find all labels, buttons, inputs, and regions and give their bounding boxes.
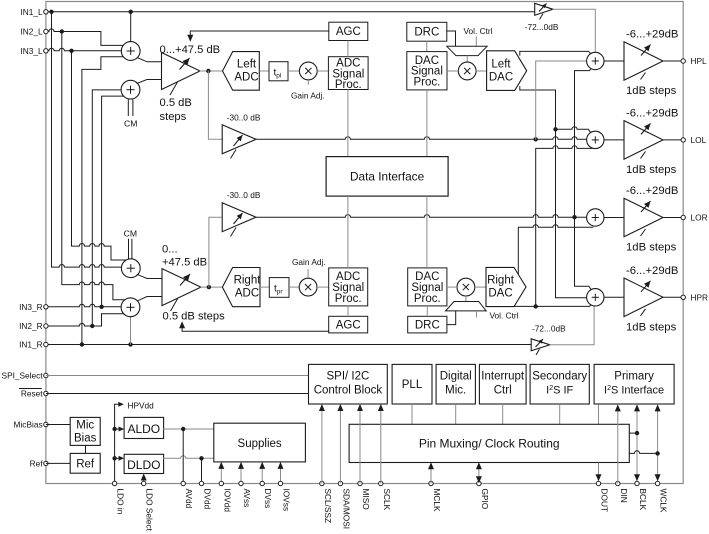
pot volume trapezoid right: [446, 302, 487, 311]
block Interrupt Ctrl: [479, 364, 526, 404]
label Gain Adj right: [292, 257, 326, 278]
wire tap LeftDAC to LOL: [556, 127, 592, 134]
wire Interrupt column: [502, 404, 504, 424]
block Secondary I2S IF: [530, 364, 589, 404]
wire DACSP1 to DataIF: [426, 90, 428, 157]
svg-text:AGC: AGC: [336, 320, 361, 332]
wire driver out LOL: [663, 139, 683, 141]
svg-text:Data Interface: Data Interface: [350, 170, 425, 184]
svg-text:SPI/ I2C: SPI/ I2C: [326, 371, 369, 383]
wire SDA/MOSI column: [337, 404, 343, 484]
wire PGA2 to bypass amp: [209, 217, 222, 287]
wire ADCSP1 to DataIF: [347, 90, 349, 157]
block DLDO: [124, 454, 164, 473]
wire IOVdd riser: [218, 462, 224, 484]
svg-text:Proc.: Proc.: [413, 77, 440, 89]
summer output mixer HPL: [587, 52, 604, 69]
wire IN1_R line: [46, 342, 531, 346]
wire volume to mult left: [466, 56, 468, 63]
svg-text:Pin Muxing/ Clock Routing: Pin Muxing/ Clock Routing: [419, 437, 560, 451]
label Gain Adj left: [291, 80, 325, 101]
svg-text:DAC: DAC: [488, 288, 512, 300]
svg-text:AVdd: AVdd: [184, 489, 194, 509]
wire RightDAC out to HPR: [514, 304, 592, 307]
block Data Interface: [326, 157, 448, 197]
wire mixer to driver HPR: [604, 296, 624, 298]
multiplier M2 gain adj right: [299, 278, 317, 296]
wire IN2_R line: [46, 314, 124, 328]
wire mixer to driver LOR: [604, 217, 624, 219]
wire S4 to PGA2: [137, 297, 162, 301]
wire M3 to Left DAC: [476, 70, 487, 72]
wire DOUT column: [596, 463, 602, 482]
dac Left DAC: [487, 51, 527, 91]
label Vol Ctrl right: [477, 311, 519, 321]
wire IN2_L bus to right mixer: [62, 32, 125, 300]
wire IN1_L drop to summer: [130, 12, 132, 42]
wire lineL mix left: [256, 137, 587, 142]
terminal IN3_R: [19, 302, 48, 312]
wire AGC2 to ADCSP2: [347, 306, 349, 316]
label Vol Ctrl left: [463, 26, 492, 46]
svg-text:HPL: HPL: [691, 56, 708, 66]
wire DIN column: [615, 404, 621, 483]
block tpr interpolation filter: [269, 278, 289, 298]
summer S4 right inputs: [121, 298, 140, 317]
pin GPIO: [477, 481, 490, 509]
wire IN1_L line: [46, 10, 535, 14]
label driver steps HPR: [626, 322, 677, 334]
wire LDO to ALDO: [112, 427, 124, 432]
wire IN2_L line: [46, 29, 123, 45]
svg-text:-72...0dB: -72...0dB: [532, 324, 566, 334]
svg-text:DRC: DRC: [414, 26, 439, 38]
svg-text:AVss: AVss: [242, 489, 252, 508]
pin BCLK: [635, 481, 648, 510]
wire B3 to HPL mixer: [553, 9, 595, 52]
wire DataIF to ADCSP2: [347, 196, 349, 268]
svg-text:DVdd: DVdd: [203, 489, 213, 510]
wire IN2_R bus to left CM mixer: [92, 90, 121, 326]
svg-text:Mic.: Mic.: [445, 385, 466, 397]
wire mixer to driver HPL: [604, 60, 624, 62]
terminal HPL: [681, 56, 707, 66]
wire AVss riser: [238, 462, 244, 484]
svg-text:Vol. Ctrl: Vol. Ctrl: [489, 311, 518, 321]
CM symbol right: [124, 229, 137, 260]
wire SPI_Select: [46, 375, 309, 377]
svg-text:SPI_Select: SPI_Select: [2, 371, 44, 381]
svg-text:Proc.: Proc.: [335, 79, 362, 91]
wire IN1_L bus to right mixer: [52, 12, 122, 267]
terminal LOL: [681, 135, 707, 145]
wire DRC1 to DACSP1: [426, 41, 428, 51]
wire driver out LOR: [663, 217, 683, 219]
svg-text:1dB steps: 1dB steps: [626, 322, 677, 334]
terminal IN3_L: [20, 46, 48, 56]
svg-text:-72...0dB: -72...0dB: [525, 22, 559, 32]
wire LDO to DLDO: [112, 456, 124, 461]
pin SCL/SSZ: [320, 481, 333, 523]
summer S2 left CM: [121, 80, 140, 99]
terminal Ref: [30, 458, 48, 468]
label PGA1 steps: [160, 97, 192, 123]
wire PinMux to BCLK stub: [629, 431, 639, 435]
svg-text:IN2_R: IN2_R: [19, 321, 43, 331]
svg-text:HPVdd: HPVdd: [128, 400, 155, 410]
svg-text:Proc.: Proc.: [335, 293, 362, 305]
svg-text:IN1_R: IN1_R: [19, 340, 43, 350]
wire IN1_R rise to summer: [130, 317, 132, 345]
svg-text:LOR: LOR: [691, 213, 708, 223]
svg-text:ADC: ADC: [235, 288, 259, 300]
amp PGA2 right record amp: [162, 269, 201, 311]
pin AVss: [239, 481, 252, 507]
svg-text:Left: Left: [237, 59, 257, 71]
terminal IN1_L: [20, 7, 48, 17]
wire DRC2 to volume right: [447, 311, 456, 325]
svg-text:CM: CM: [124, 229, 137, 239]
wire B4 to HPR mixer: [550, 306, 594, 345]
wire S2 to PGA1: [137, 80, 161, 84]
wire MCLK column: [428, 462, 434, 483]
wire AGC2 feedback: [179, 321, 329, 331]
svg-text:ALDO: ALDO: [127, 422, 160, 436]
svg-text:BCLK: BCLK: [638, 489, 648, 511]
wire MISO column: [357, 404, 363, 484]
wire AGC1 to ADCSP1: [347, 41, 349, 57]
wire IN3_L line: [46, 48, 121, 53]
amp driver HPL: [624, 42, 663, 81]
wire LeftDAC down branch: [520, 87, 587, 298]
block Primary I2S Interface: [594, 364, 674, 404]
pin IOVdd: [219, 481, 232, 512]
label driver gain HPR: [626, 265, 678, 277]
wire PLL column: [411, 404, 413, 424]
dac Right DAC: [486, 267, 526, 306]
svg-text:0.5 dB: 0.5 dB: [160, 97, 192, 109]
amp driver LOL: [624, 121, 663, 160]
wire DigitalMic column: [455, 404, 457, 424]
wire DVss riser: [259, 462, 265, 484]
amp B3 -72dB top: [535, 3, 553, 19]
wire LDO_Select riser: [141, 474, 147, 484]
label driver steps LOL: [626, 164, 677, 176]
label B3: [525, 22, 559, 32]
svg-text:Left: Left: [491, 59, 511, 71]
svg-text:0...: 0...: [162, 243, 178, 255]
pin MCLK: [429, 481, 442, 512]
svg-text:Digital: Digital: [440, 371, 472, 383]
svg-text:MicBias: MicBias: [14, 420, 43, 430]
amp driver LOR: [624, 198, 663, 237]
wire IN3_R line: [46, 304, 121, 309]
svg-text:-6...+29dB: -6...+29dB: [626, 265, 678, 277]
svg-text:IOVdd: IOVdd: [222, 489, 232, 513]
wire driver out HPL: [663, 60, 683, 62]
svg-text:-6...+29dB: -6...+29dB: [626, 29, 678, 41]
svg-text:0...+47.5 dB: 0...+47.5 dB: [160, 44, 221, 56]
wire SCL/SSZ column: [319, 404, 325, 484]
wire IOVss riser: [278, 462, 284, 484]
svg-text:1dB steps: 1dB steps: [626, 85, 677, 97]
svg-text:IN3_L: IN3_L: [20, 46, 43, 56]
block ADC Signal Proc right: [329, 268, 368, 306]
svg-text:ADC: ADC: [234, 72, 258, 84]
wire left mix riser gray: [536, 61, 587, 139]
pin AVdd: [181, 481, 194, 508]
terminal Reset: [19, 389, 48, 399]
pin LDO in: [112, 481, 125, 514]
svg-text:LDO in: LDO in: [116, 489, 126, 515]
block AGC right: [329, 316, 368, 333]
label B2: [227, 190, 261, 200]
block Supplies: [214, 423, 306, 462]
svg-text:Mic: Mic: [76, 420, 94, 432]
label PGA2 steps: [163, 310, 226, 322]
wire PGA1 to bypass amp: [208, 71, 222, 139]
svg-text:Proc.: Proc.: [414, 293, 441, 305]
svg-text:SCL/SSZ: SCL/SSZ: [323, 489, 333, 524]
wire S3 to PGA2: [137, 274, 162, 278]
wire RightDAC riser to LOL: [534, 146, 593, 309]
pot volume trapezoid left: [447, 46, 487, 55]
svg-text:1dB steps: 1dB steps: [626, 242, 677, 254]
svg-text:Primary: Primary: [614, 371, 654, 383]
label driver gain LOL: [626, 108, 678, 120]
multiplier M1 gain adj left: [299, 62, 317, 80]
terminal IN1_R: [19, 340, 48, 350]
amp B4 -72dB bottom: [531, 339, 550, 355]
wire DataIF to DACSP2: [426, 196, 428, 268]
svg-text:LDO Select: LDO Select: [145, 489, 155, 532]
svg-text:-6...+29dB: -6...+29dB: [626, 185, 678, 197]
amp PGA1 left record amp: [162, 53, 201, 96]
label driver gain HPL: [626, 29, 678, 41]
svg-text:Right: Right: [234, 275, 262, 287]
wire right mix riser: [575, 67, 593, 290]
wire mixer to driver LOL: [604, 139, 624, 141]
svg-text:SDA/MOSI: SDA/MOSI: [341, 489, 351, 530]
svg-text:-30..0 dB: -30..0 dB: [227, 190, 261, 200]
wire AGC1 feedback: [187, 31, 328, 42]
wire AVdd riser: [182, 429, 184, 484]
summer S1 left inputs: [121, 42, 140, 61]
wire DLDO out: [164, 456, 214, 461]
wire DRC2 to DACSP2: [426, 306, 428, 316]
svg-text:SCLK: SCLK: [382, 489, 392, 511]
label HPVdd: [128, 400, 155, 410]
wire PinMux to WCLK stub: [629, 451, 660, 456]
wire BCLK column: [634, 404, 640, 481]
wire gain mult to ADC SP right: [317, 286, 329, 288]
svg-text:Secondary: Secondary: [532, 371, 587, 383]
amp B1 -30dB left: [222, 125, 256, 159]
svg-text:-30..0 dB: -30..0 dB: [227, 112, 261, 122]
wire IN3_R bus to left CM mixer: [102, 96, 124, 307]
wire PGA1 out: [200, 69, 223, 73]
amp driver HPR: [624, 278, 663, 317]
svg-text:IN2_L: IN2_L: [20, 27, 43, 37]
pin MISO: [358, 481, 371, 510]
svg-text:GPIO: GPIO: [480, 489, 490, 510]
wire Secondary column: [559, 404, 561, 424]
block ADC Signal Proc left: [328, 57, 368, 91]
wire IN3_L bus to right mixer: [72, 51, 128, 260]
wire DRC1 to volume: [447, 31, 456, 46]
terminal MicBias: [14, 420, 49, 430]
wire RightDAC upper branch to LOR: [518, 225, 593, 274]
terminal IN2_L: [20, 27, 48, 37]
svg-text:IN3_R: IN3_R: [19, 302, 43, 312]
summer output mixer LOR: [587, 209, 604, 226]
svg-text:HPR: HPR: [691, 292, 709, 302]
label driver steps LOR: [626, 242, 677, 254]
block DRC left: [407, 22, 447, 41]
svg-text:DVss: DVss: [263, 489, 273, 509]
svg-text:Reset: Reset: [21, 389, 43, 399]
svg-text:PLL: PLL: [402, 379, 423, 391]
svg-text:Interrupt: Interrupt: [481, 371, 525, 383]
block tpl interpolation filter: [269, 62, 288, 81]
wire Ref: [46, 462, 70, 464]
wire S1 to PGA1: [137, 58, 161, 62]
svg-text:Ref: Ref: [30, 458, 44, 468]
svg-text:+47.5 dB: +47.5 dB: [162, 256, 207, 268]
pin DVdd: [199, 481, 212, 509]
pin SCLK: [379, 481, 392, 510]
block AGC left: [329, 22, 368, 40]
adc Right ADC: [222, 268, 261, 307]
wire DACSP2 to M4: [447, 286, 457, 288]
wire Reset: [46, 393, 309, 395]
label PGA1 gain: [160, 44, 221, 56]
label driver steps HPL: [626, 85, 677, 97]
pin LDO Select: [142, 481, 155, 531]
wire driver out HPR: [663, 296, 683, 298]
block DAC Signal Proc right: [408, 268, 447, 306]
pin DIN: [616, 481, 629, 502]
svg-text:1dB steps: 1dB steps: [626, 164, 677, 176]
svg-text:IOVss: IOVss: [282, 489, 292, 512]
wire MicBias to Ref: [85, 445, 87, 453]
block DRC right: [408, 316, 447, 333]
summer S3 right CM: [121, 259, 140, 278]
block ALDO: [124, 417, 164, 438]
svg-text:-6...+29dB: -6...+29dB: [626, 108, 678, 120]
svg-text:CM: CM: [124, 119, 137, 129]
svg-text:steps: steps: [160, 111, 187, 123]
block Digital Mic: [436, 364, 475, 404]
wire MicBias: [46, 424, 70, 426]
block Ref: [70, 453, 100, 473]
svg-text:Bias: Bias: [74, 433, 97, 445]
summer output mixer LOL: [587, 131, 604, 148]
pin DOUT: [596, 481, 609, 512]
svg-text:LOL: LOL: [691, 135, 707, 145]
wire Primary DOUT column: [598, 404, 600, 424]
terminal IN2_R: [19, 321, 48, 331]
svg-text:Gain Adj.: Gain Adj.: [292, 257, 326, 267]
wire gain mult to ADC SP: [317, 70, 328, 72]
wire tpl to gain mult: [288, 70, 299, 72]
wire LeftDAC to HPL mixer: [520, 51, 592, 55]
wire ADC to tpr: [260, 286, 269, 288]
label driver gain LOR: [626, 185, 678, 197]
wire M4 to Right DAC: [475, 286, 486, 288]
block SPI I2C Control Block: [309, 364, 388, 404]
svg-text:WCLK: WCLK: [659, 489, 669, 513]
terminal SPI_Select: [2, 371, 49, 381]
svg-text:Gain Adj.: Gain Adj.: [291, 91, 325, 101]
wire GPIO column: [476, 462, 482, 483]
wire tpr to gain mult: [289, 286, 299, 288]
svg-text:DIN: DIN: [619, 489, 629, 503]
wire WCLK column: [655, 404, 661, 481]
svg-text:DOUT: DOUT: [600, 489, 610, 513]
wire M4 to volume right: [465, 296, 467, 302]
summer output mixer HPR: [587, 289, 604, 306]
svg-text:0.5 dB steps: 0.5 dB steps: [163, 310, 226, 322]
adc Left ADC: [223, 52, 260, 91]
svg-text:I2S Interface: I2S Interface: [604, 385, 664, 397]
label PGA2 gain: [162, 243, 207, 268]
block Mic Bias: [70, 417, 100, 445]
pin DVss: [260, 481, 273, 508]
wire lineR mix right: [256, 215, 587, 220]
wire ADC to tpl: [259, 70, 269, 72]
svg-text:Control Block: Control Block: [314, 385, 383, 397]
multiplier M3 DAC vol left: [458, 62, 476, 80]
CM symbol left: [124, 99, 137, 128]
svg-text:DAC: DAC: [489, 72, 513, 84]
pin IOVss: [278, 481, 291, 511]
wire LDO_in riser HPVdd: [115, 402, 124, 484]
pin SDA/MOSI: [338, 481, 351, 529]
terminal LOR: [681, 213, 708, 223]
block DAC Signal Proc left: [407, 52, 447, 90]
label B4: [532, 324, 566, 334]
svg-text:DLDO: DLDO: [127, 458, 160, 472]
label B1: [227, 112, 261, 122]
pin WCLK: [655, 481, 668, 513]
svg-text:AGC: AGC: [336, 26, 361, 38]
amp B2 -30dB right: [222, 203, 256, 237]
svg-text:Right: Right: [487, 275, 515, 287]
terminal HPR: [681, 292, 708, 302]
wire DACSP1 to M3: [447, 70, 458, 72]
wire IN1_R bus to left mixer: [82, 57, 123, 345]
wire ALDO out: [164, 427, 214, 431]
wire PGA2 out: [201, 285, 223, 289]
svg-text:Vol. Ctrl: Vol. Ctrl: [463, 26, 492, 36]
svg-text:DRC: DRC: [415, 320, 440, 332]
svg-text:Ctrl: Ctrl: [494, 385, 512, 397]
svg-text:IN1_L: IN1_L: [20, 7, 43, 17]
block PLL: [392, 364, 432, 404]
svg-text:Supplies: Supplies: [238, 438, 282, 450]
block Pin Muxing Clock Routing: [349, 424, 629, 462]
multiplier M4 DAC vol right: [457, 278, 475, 296]
svg-text:Ref: Ref: [76, 458, 95, 470]
svg-text:MISO: MISO: [361, 489, 371, 511]
svg-text:MCLK: MCLK: [432, 489, 442, 513]
wire SCLK column: [378, 404, 384, 484]
wire DVdd riser: [201, 458, 203, 483]
